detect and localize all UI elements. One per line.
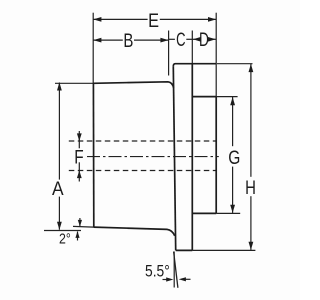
svg-text:A: A (52, 178, 64, 200)
svg-text:5.5°: 5.5° (145, 262, 170, 281)
svg-text:F: F (74, 147, 83, 169)
svg-text:B: B (123, 30, 133, 52)
svg-text:E: E (148, 10, 159, 32)
svg-text:2°: 2° (59, 231, 71, 247)
svg-text:H: H (245, 177, 256, 199)
svg-text:G: G (228, 147, 240, 169)
svg-text:C: C (176, 29, 185, 51)
svg-text:D: D (199, 29, 209, 51)
